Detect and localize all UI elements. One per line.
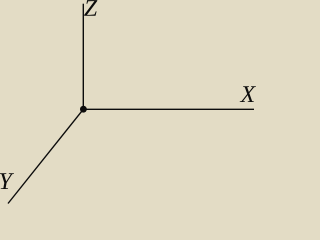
node Y label [0,173,14,189]
wire Z axis (vertical) [82,4,84,110]
wire X axis (horizontal) [83,108,254,110]
node Z label [84,0,97,16]
wire Y axis (diagonal) [8,109,83,203]
node X label [240,86,256,102]
node origin [80,106,87,113]
